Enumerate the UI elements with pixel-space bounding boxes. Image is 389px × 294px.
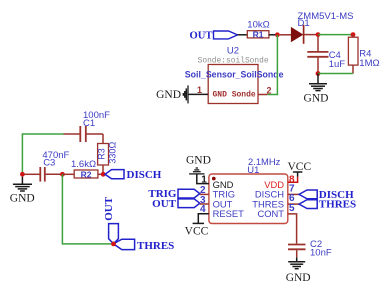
svg-text:R2: R2 (81, 169, 92, 179)
svg-text:U2: U2 (227, 45, 239, 56)
node junction below C4 (316, 71, 321, 76)
capacitor C2 (288, 239, 332, 259)
svg-text:C3: C3 (43, 158, 55, 169)
svg-text:330Ω: 330Ω (108, 142, 118, 164)
resistor R4 (348, 35, 379, 74)
svg-text:U1: U1 (247, 164, 259, 175)
diode D1 ZMM5V1-MS (291, 11, 353, 44)
resistor R2 (62, 159, 103, 179)
ground left of U2 (156, 85, 188, 103)
resistor R3 (96, 142, 117, 175)
port OUT (vertical) (103, 196, 118, 244)
svg-text:5: 5 (289, 203, 295, 214)
ground below C4 (304, 74, 329, 105)
node junction THRES/OUT (111, 242, 116, 247)
node junction between C3 and R2 (60, 172, 65, 177)
node junction above R4 (351, 32, 356, 37)
svg-text:GND: GND (304, 93, 329, 105)
node junction left (GND node) (20, 172, 25, 177)
ground bottom-left (10, 177, 35, 205)
ground below C2 (286, 257, 311, 284)
port TRIG (148, 188, 199, 200)
port THRES (U1 right) (299, 199, 356, 211)
port OUT (U1 left) (152, 198, 200, 210)
port OUT (top) (190, 31, 238, 42)
wire junction to R4 top (318, 34, 353, 36)
wire GND to U2 pin 1 (188, 93, 208, 95)
wire C1 left to riser (22, 134, 63, 174)
svg-text:GND: GND (186, 155, 211, 167)
wire C1 right down to R3 (102, 134, 104, 144)
wire U2 pin2 up to R1 junction (267, 35, 277, 95)
wire pin 5 to C2 (288, 214, 297, 244)
IC U1 555 timer (209, 156, 288, 224)
wire GND to pin 1 (197, 174, 209, 184)
wire D1 to junction (304, 34, 318, 36)
power VCC below pin 4 (185, 223, 209, 237)
node junction above C4 (316, 32, 321, 37)
svg-text:R1: R1 (253, 29, 264, 39)
wire C4 bottom to R4 bottom (318, 73, 353, 75)
svg-text:GND: GND (156, 89, 181, 101)
node junction at R2/R3/DISCH (101, 172, 106, 177)
wire pin 8 to VCC (288, 177, 298, 183)
svg-text:10nF: 10nF (310, 248, 332, 259)
port THRES (bottom) (114, 239, 175, 252)
svg-text:THRES: THRES (319, 199, 356, 211)
power VCC above pin 8 (288, 161, 312, 177)
capacitor C1 (64, 110, 111, 142)
svg-text:RESET: RESET (213, 208, 245, 219)
svg-text:OUT: OUT (190, 31, 213, 42)
port DISCH (left area) (105, 169, 162, 181)
svg-text:GND: GND (286, 272, 311, 284)
svg-text:1: 1 (197, 85, 202, 95)
svg-text:C1: C1 (83, 118, 95, 129)
capacitor C3 (24, 150, 70, 182)
svg-text:THRES: THRES (137, 240, 174, 252)
svg-text:GND Sonde: GND Sonde (213, 90, 256, 99)
wire pin 4 to VCC (198, 214, 209, 223)
svg-text:CONT: CONT (257, 208, 284, 219)
wire R1 to junction (269, 34, 278, 36)
svg-text:OUT: OUT (103, 196, 115, 221)
svg-text:R3: R3 (96, 148, 106, 159)
svg-text:DISCH: DISCH (127, 169, 162, 181)
node junction after R1 (275, 32, 280, 37)
svg-text:Soil_Sensor_SoilSonde: Soil_Sensor_SoilSonde (185, 70, 284, 80)
IC U2 soil sensor (185, 45, 284, 103)
resistor R1 (247, 20, 269, 40)
svg-text:GND: GND (10, 193, 35, 205)
wire C3 node down to THRES (62, 174, 111, 244)
ground above U1 pin 1 (186, 155, 211, 174)
capacitor C4 (307, 37, 345, 74)
wire OUT to R1 (238, 34, 248, 36)
svg-text:1uF: 1uF (329, 59, 346, 70)
svg-text:VCC: VCC (185, 225, 209, 237)
svg-text:1MΩ: 1MΩ (359, 58, 379, 69)
port DISCH (U1 right) (299, 189, 354, 201)
svg-text:OUT: OUT (152, 198, 177, 210)
wire junction to D1 (280, 34, 292, 36)
